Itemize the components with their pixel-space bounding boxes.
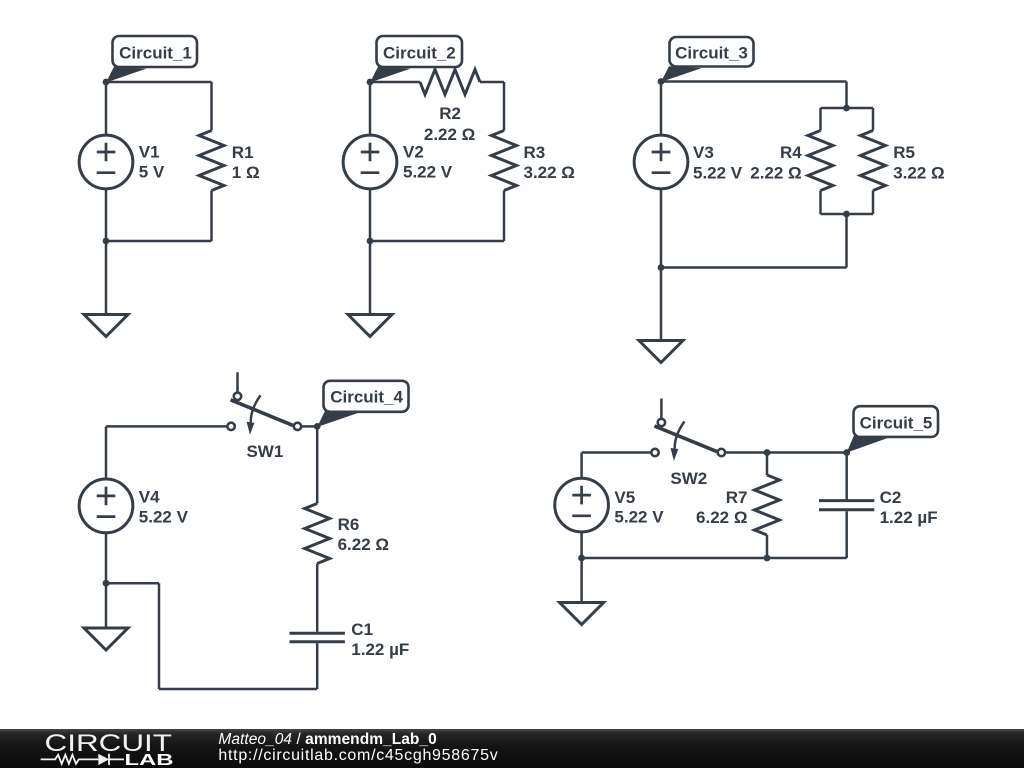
svg-text:6.22 Ω: 6.22 Ω [696,508,747,527]
svg-text:R4: R4 [780,143,802,162]
svg-text:V3: V3 [693,143,714,162]
ground C4 [84,628,128,650]
resistor R2 [420,70,480,95]
wire V5 bottom C5 [580,532,583,558]
node bottom C4 [103,580,110,587]
wire switch to node C4 [302,425,318,428]
switch SW1 [227,372,301,435]
resistor R5 [861,131,886,191]
wire left lower C3 [660,189,663,268]
node bracket top C3 [843,105,850,112]
capacitor C1 [290,633,345,642]
switch SW2 [651,399,725,462]
svg-text:R3: R3 [524,143,546,162]
svg-text:V2: V2 [403,143,424,162]
wire left branch upper C3 [819,108,822,131]
wire right lower C2 [503,191,506,242]
wire V4 bottom C4 [105,533,108,583]
wire ground stem C1 [105,241,108,315]
svg-text:6.22 Ω: 6.22 Ω [338,535,389,554]
wire below cap C4 [316,643,319,689]
svg-text:Circuit_5: Circuit_5 [860,414,933,433]
wire top drop C3 [845,82,848,109]
wire R7 upper C5 [766,453,769,476]
wire R6 to C1 cap [316,564,319,632]
ground C3 [639,341,683,363]
svg-text:LAB: LAB [125,752,174,768]
wire switch to C2 branch C5 [725,451,846,454]
wire right upper C4 [316,426,319,503]
ground C5 [560,603,604,625]
label Circuit_5 [847,406,938,452]
wire bottom C3 [661,266,847,269]
wire left lower C2 [369,189,372,241]
svg-text:http://circuitlab.com/c45cgh95: http://circuitlab.com/c45cgh958675v [218,747,497,764]
logo resistor-diode line [41,754,124,765]
svg-text:V4: V4 [139,487,160,506]
wire left riser C4 [158,583,161,689]
svg-text:5.22 V: 5.22 V [403,163,453,182]
wire ground stem C4 [105,583,108,628]
voltage source V3 [634,135,688,189]
svg-text:5.22 V: 5.22 V [693,164,743,183]
wire right lower C1 [210,191,213,242]
svg-text:Circuit_3: Circuit_3 [675,43,748,62]
svg-text:5.22 V: 5.22 V [139,507,189,526]
node C2 top C5 [843,449,850,456]
wire V4 top C4 [105,426,108,479]
svg-text:SW1: SW1 [246,442,283,461]
voltage source V2 [343,135,397,189]
wire left upper C2 [369,82,372,135]
voltage source V4 [79,479,133,533]
node bottom C5 [578,555,585,562]
svg-text:V5: V5 [614,488,635,507]
wire bottom C1 [106,240,212,243]
svg-text:1 Ω: 1 Ω [232,163,260,182]
wire top C1 [106,81,212,84]
node R7 top C5 [764,449,771,456]
resistor R7 [755,475,780,535]
svg-text:1.22 µF: 1.22 µF [880,508,938,527]
node switch C4 [314,423,321,430]
wire left top C5 [582,451,652,454]
resistor R3 [492,131,517,191]
wire to node C4 [106,582,159,585]
svg-text:5.22 V: 5.22 V [614,508,664,527]
wire left top C4 [106,425,227,428]
resistor R1 [199,131,224,191]
resistor R6 [305,504,330,564]
wire right upper C2 [503,82,506,131]
svg-text:C1: C1 [351,620,373,639]
resistor R4 [808,131,833,191]
svg-text:Matteo_04 / ammendm_Lab_0: Matteo_04 / ammendm_Lab_0 [218,731,436,748]
svg-text:C2: C2 [880,488,902,507]
wire ground stem C2 [369,241,372,315]
svg-text:R1: R1 [232,143,254,162]
node bracket bottom C3 [843,211,850,218]
ground C1 [84,315,128,337]
wire bottom C5 [582,557,847,560]
wire bracket bottom C3 [821,213,874,216]
wire ground stem C5 [580,558,583,603]
svg-text:Circuit_2: Circuit_2 [383,44,456,63]
capacitor C2 [819,501,874,510]
voltage source V5 [555,478,609,532]
wire C2 lower C5 [845,511,848,558]
wire C2 upper C5 [845,453,848,501]
svg-text:R2: R2 [439,104,461,123]
wire bracket top C3 [821,107,874,110]
label Circuit_1 [106,36,197,83]
node top C1 [103,79,110,86]
footer bar [0,729,1024,768]
node bottom C3 [658,264,665,271]
node bottom C1 [103,238,110,245]
wire left branch lower C3 [819,191,822,215]
svg-text:SW2: SW2 [670,469,707,488]
label Circuit_2 [370,36,462,83]
svg-text:V1: V1 [139,143,160,162]
wire right branch lower C3 [872,191,875,215]
node R7 bottom C5 [764,555,771,562]
label Circuit_4 [317,381,408,427]
wire left upper C3 [660,82,663,136]
wire V5 top C5 [580,453,583,479]
svg-text:R7: R7 [726,488,748,507]
wire bottom C2 [370,240,504,243]
svg-text:2.22 Ω: 2.22 Ω [750,164,801,183]
ground C2 [348,315,392,337]
node top C2 [367,79,374,86]
svg-text:R6: R6 [338,515,360,534]
wire left upper C1 [105,82,108,135]
svg-text:Circuit_1: Circuit_1 [119,44,192,63]
wire bottom C4 [159,688,317,691]
wire R7 lower C5 [766,535,769,558]
wire right branch upper C3 [872,108,875,131]
label Circuit_3 [661,37,754,82]
svg-text:2.22 Ω: 2.22 Ω [424,125,475,144]
wire left lower C1 [105,189,108,241]
wire right drop C3 [845,214,848,268]
voltage source V1 [79,135,133,189]
svg-text:R5: R5 [893,143,915,162]
svg-text:3.22 Ω: 3.22 Ω [524,163,575,182]
wire top right C2 [480,81,504,84]
node bottom C2 [367,238,374,245]
node top C3 [658,78,665,85]
svg-text:1.22 µF: 1.22 µF [351,640,409,659]
svg-text:Circuit_4: Circuit_4 [330,388,403,407]
wire top left C2 [370,81,420,84]
wire ground stem C3 [660,268,663,341]
wire right upper C1 [210,82,213,131]
svg-text:3.22 Ω: 3.22 Ω [893,164,944,183]
svg-text:5 V: 5 V [139,163,165,182]
wire top C3 [661,80,847,83]
